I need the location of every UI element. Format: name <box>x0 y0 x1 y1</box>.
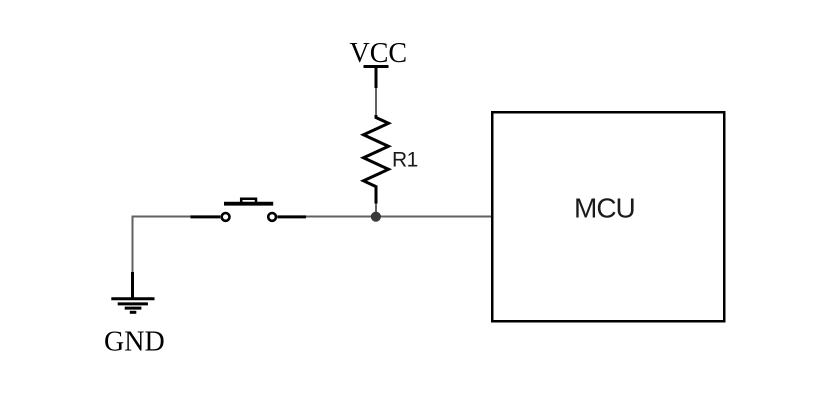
svg-text:GND: GND <box>104 326 165 357</box>
svg-text:VCC: VCC <box>350 38 408 69</box>
switch right contact <box>268 213 276 221</box>
wire <box>375 87 377 118</box>
wire <box>376 216 492 218</box>
wire <box>375 202 377 217</box>
pushbutton switch S1 <box>191 199 307 221</box>
switch plunger <box>241 199 256 203</box>
MCU box U1 <box>492 112 724 321</box>
wire <box>133 217 193 274</box>
node junction dot <box>371 212 381 222</box>
resistor R1 <box>364 115 389 204</box>
switch right lead <box>277 215 306 218</box>
svg-text:R1: R1 <box>392 148 418 171</box>
wire <box>305 216 376 218</box>
switch left lead <box>191 215 221 218</box>
switch actuator bar <box>224 202 273 206</box>
switch left contact <box>222 213 230 221</box>
ground <box>111 272 154 312</box>
power symbol VCC <box>364 67 389 89</box>
svg-text:MCU: MCU <box>574 193 635 224</box>
